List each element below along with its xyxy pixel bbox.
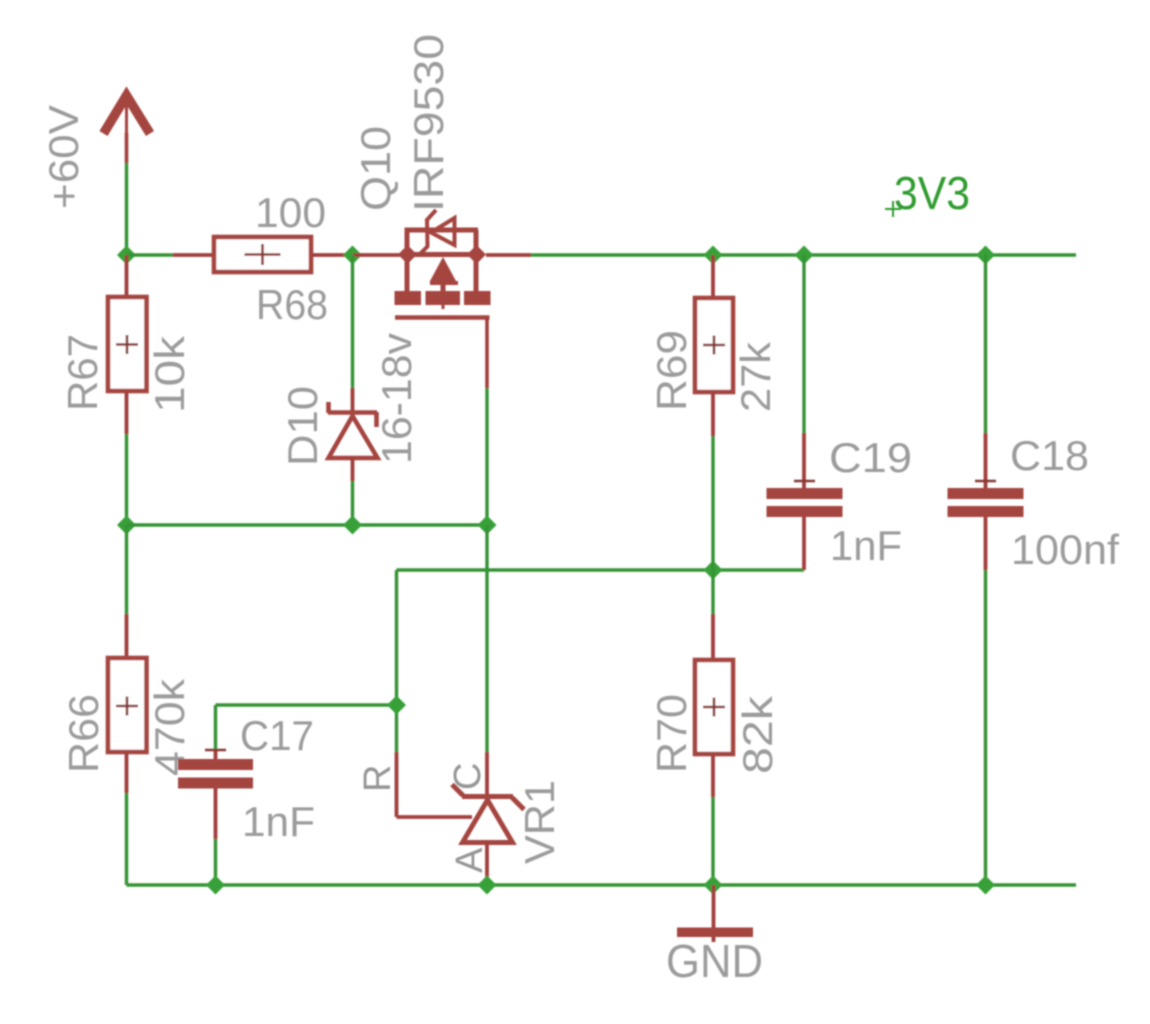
body pad tick <box>442 305 445 309</box>
node junction C17/rail <box>206 876 225 895</box>
bar hook bottom-right <box>512 798 524 810</box>
svg-text:3V3: 3V3 <box>894 167 970 219</box>
gate bar <box>395 315 490 320</box>
svg-text:82k: 82k <box>734 696 781 774</box>
pin diamond D <box>467 245 486 264</box>
shunt regulator VR1 <box>397 752 525 885</box>
top bar <box>405 228 479 233</box>
gate lead down <box>485 318 489 388</box>
right vertical <box>474 230 479 292</box>
svg-text:Q10: Q10 <box>352 126 399 211</box>
node junction rail/C18 <box>976 246 995 265</box>
svg-text:100nf: 100nf <box>1011 526 1119 573</box>
wire bottom rail <box>127 883 1077 886</box>
triangle <box>463 800 513 843</box>
node junction divider row <box>704 561 723 580</box>
node junction C17 row <box>387 696 406 715</box>
cathode lead <box>485 752 489 794</box>
wire drain pin to 3V3 rail <box>486 253 531 257</box>
wire gate node to VR1 cathode <box>485 525 488 752</box>
wire C17 row <box>216 703 398 706</box>
capacitor C17 <box>178 705 253 885</box>
wire gate net down <box>485 388 488 525</box>
node junction mid-left <box>117 516 136 535</box>
svg-text:R70: R70 <box>648 694 695 773</box>
cathode bar <box>462 794 513 799</box>
node junction rail/C19 <box>795 246 814 265</box>
svg-text:R69: R69 <box>648 330 695 411</box>
svg-text:100: 100 <box>255 189 326 236</box>
svg-text:+60V: +60V <box>40 105 87 209</box>
node junction top-left <box>117 246 136 265</box>
anode lead <box>485 842 489 885</box>
svg-text:1nF: 1nF <box>242 798 315 845</box>
svg-text:R67: R67 <box>59 334 106 411</box>
svg-text:1nF: 1nF <box>830 522 902 569</box>
node junction VR1/rail <box>478 876 497 895</box>
node junction GND/rail <box>704 876 723 895</box>
wire top rail left segment <box>127 253 174 256</box>
wire divider row <box>397 568 805 571</box>
svg-text:A: A <box>449 847 491 873</box>
resistor R70 <box>695 570 733 885</box>
node junction R68/D10 <box>343 246 362 265</box>
resistor R68 <box>173 237 352 272</box>
channel line through S and D <box>404 252 480 257</box>
node junction rail/R69 <box>704 246 723 265</box>
pin diamond S <box>398 245 417 264</box>
ref pin wire <box>395 752 399 817</box>
svg-text:IRF9530: IRF9530 <box>405 34 452 212</box>
node junction gate/mid row <box>478 516 497 535</box>
svg-text:D10: D10 <box>279 386 326 466</box>
wire R67 to mid row <box>125 434 128 525</box>
svg-text:VR1: VR1 <box>516 780 563 864</box>
svg-text:C18: C18 <box>1010 432 1089 479</box>
node junction D10 bottom <box>343 516 362 535</box>
svg-text:C: C <box>447 763 489 790</box>
drain pad <box>464 291 491 305</box>
svg-text:10k: 10k <box>146 336 193 413</box>
wire source pin to mosfet <box>353 253 405 257</box>
wire mid row <box>127 523 489 526</box>
internal zener diode <box>418 210 455 256</box>
svg-text:R: R <box>357 765 399 792</box>
wire +60V to top rail <box>125 163 128 255</box>
transistor Q10 IRF9530 <box>395 210 491 388</box>
capacitor C19 <box>767 255 843 570</box>
svg-text:16-18v: 16-18v <box>373 333 420 464</box>
source pad <box>395 291 422 305</box>
svg-text:R66: R66 <box>60 694 107 773</box>
supply symbol +60V arrow <box>104 96 151 164</box>
bar hook top-left <box>452 785 463 796</box>
capacitor C18 <box>948 255 1024 885</box>
wire 3V3 top rail <box>531 253 1076 256</box>
ground <box>677 885 753 942</box>
diode D10 <box>328 255 378 525</box>
svg-text:C19: C19 <box>829 434 912 481</box>
3V3 origin cross <box>885 201 901 217</box>
wire feedback column <box>395 570 398 752</box>
svg-text:R68: R68 <box>256 281 328 328</box>
svg-text:C17: C17 <box>240 712 314 759</box>
resistor R69 <box>695 255 733 570</box>
body arrow <box>430 257 457 282</box>
body pad <box>426 291 461 305</box>
resistor R66 <box>108 525 147 885</box>
node junction C18/rail <box>976 876 995 895</box>
resistor R67 <box>108 255 147 434</box>
left vertical <box>405 230 410 292</box>
svg-text:GND: GND <box>666 935 763 987</box>
svg-text:27k: 27k <box>732 342 779 412</box>
